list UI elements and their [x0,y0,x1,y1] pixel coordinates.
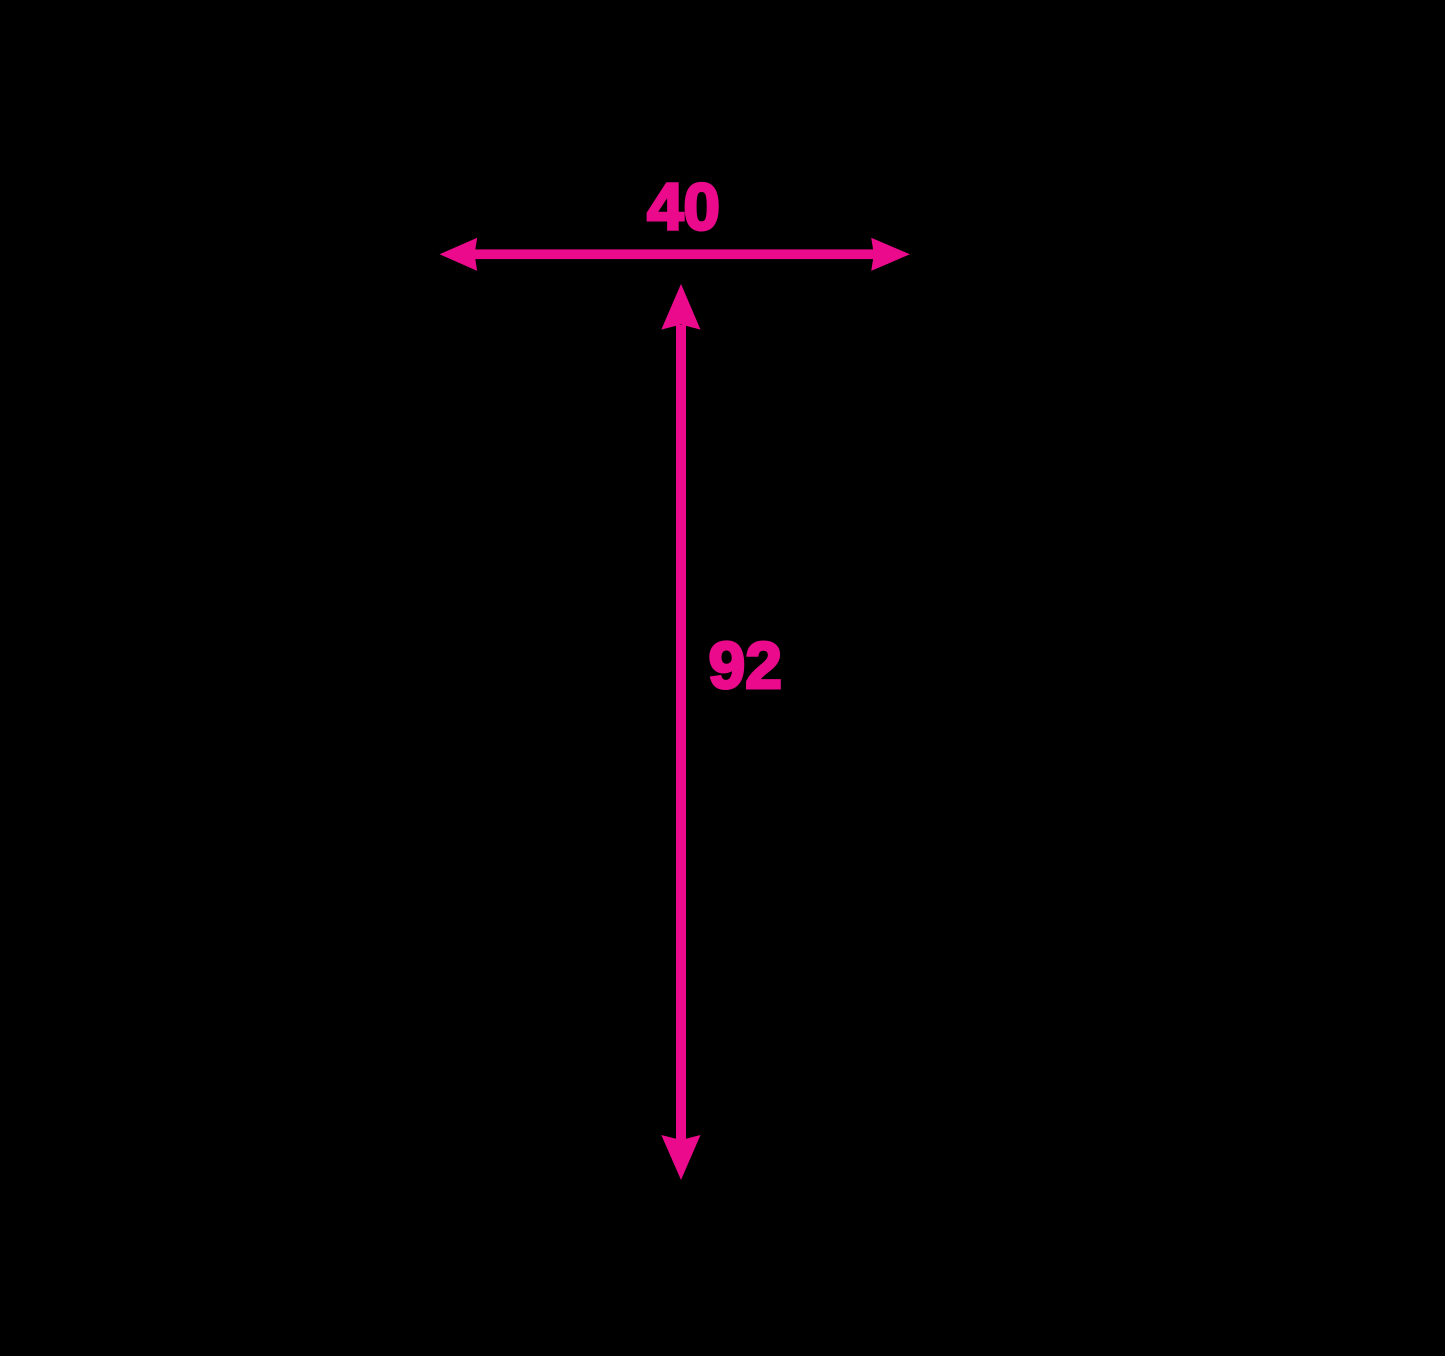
top arrowhead [661,284,700,330]
horizontal shaft [471,249,878,259]
svg-text:92: 92 [709,628,782,702]
vertical shaft [676,325,686,1140]
right arrowhead [871,238,910,271]
dimension arrow 40 (horizontal double-headed) [440,171,910,271]
left arrowhead [440,238,478,271]
dimension arrow 92 (vertical double-headed) [661,284,782,1180]
svg-text:40: 40 [647,171,720,244]
bottom arrowhead [661,1135,700,1180]
